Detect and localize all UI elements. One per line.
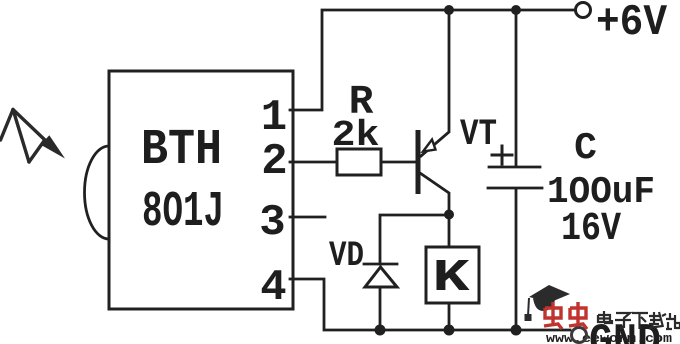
svg-text:K: K [432,253,470,304]
svg-text:2: 2 [261,137,287,187]
svg-text:4: 4 [260,263,286,313]
svg-text:2k: 2k [332,115,380,156]
svg-text:3: 3 [259,198,285,248]
svg-text:1: 1 [261,93,287,143]
svg-text:VT: VT [460,114,497,156]
svg-text:VD: VD [329,236,364,276]
svg-text:+6V: +6V [596,0,668,48]
svg-text:16V: 16V [561,207,621,252]
svg-text:8O1J: 8O1J [142,184,224,241]
svg-text:C: C [574,127,597,170]
svg-text:BTH: BTH [141,122,222,179]
